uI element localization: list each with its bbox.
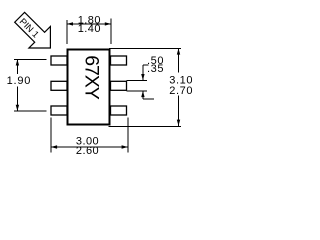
arrow down: [16, 105, 19, 111]
svg-text:1.90: 1.90: [7, 75, 32, 87]
upper leader vertical: [142, 65, 144, 80]
pin 3 (left bottom): [51, 106, 67, 115]
dim line upper part: [178, 48, 180, 72]
right dimension 3.10 / 2.70: [109, 48, 182, 126]
arrow left: [51, 145, 57, 148]
bottom dimension 3.00 / 2.60: [51, 118, 128, 153]
PIN 1 block arrow: [9, 6, 61, 58]
arrow up: [16, 59, 19, 65]
pin 5 (right middle): [111, 81, 127, 90]
svg-text:67XY: 67XY: [81, 55, 103, 100]
dimension line: [67, 23, 111, 25]
svg-text:2.60: 2.60: [76, 145, 99, 157]
lower leader horizontal: [143, 98, 154, 100]
extension line right: [127, 118, 129, 153]
package body outline: [68, 50, 110, 125]
leader bottom: [109, 125, 182, 127]
leader top: [14, 58, 47, 60]
dim line lower part: [178, 96, 180, 126]
arrow right: [105, 22, 111, 25]
upper leader horizontal: [143, 64, 149, 66]
arrow right: [122, 145, 128, 148]
extension line left: [66, 20, 68, 44]
arrow up: [177, 48, 180, 54]
extension line right: [110, 19, 112, 45]
extension line left: [50, 118, 52, 153]
top dimension 1.80 / 1.40: [67, 19, 111, 45]
svg-text:2.70: 2.70: [169, 85, 193, 97]
dim line upper part: [16, 59, 18, 74]
pin 2 (left middle): [51, 81, 67, 90]
left dimension 1.90: [14, 59, 47, 111]
dim line lower part: [16, 87, 18, 112]
svg-text:1.40: 1.40: [78, 23, 101, 35]
pin5 top tick: [127, 80, 148, 82]
right pin dimension .50 / .35: [127, 65, 155, 99]
svg-text:.35: .35: [147, 63, 164, 75]
arrow left: [67, 22, 73, 25]
leader bottom: [14, 110, 47, 112]
arrow up to pin bottom: [141, 91, 144, 97]
lower leader vertical: [142, 91, 144, 99]
arrow down to pin top: [141, 74, 144, 80]
pin5 bottom tick: [127, 90, 148, 92]
arrow down: [177, 120, 180, 126]
pin 6 (right top): [111, 56, 127, 65]
leader top: [109, 47, 181, 49]
dimension line: [51, 146, 128, 148]
pin 4 (right bottom): [111, 106, 127, 115]
pin 1 (left top): [51, 56, 67, 65]
